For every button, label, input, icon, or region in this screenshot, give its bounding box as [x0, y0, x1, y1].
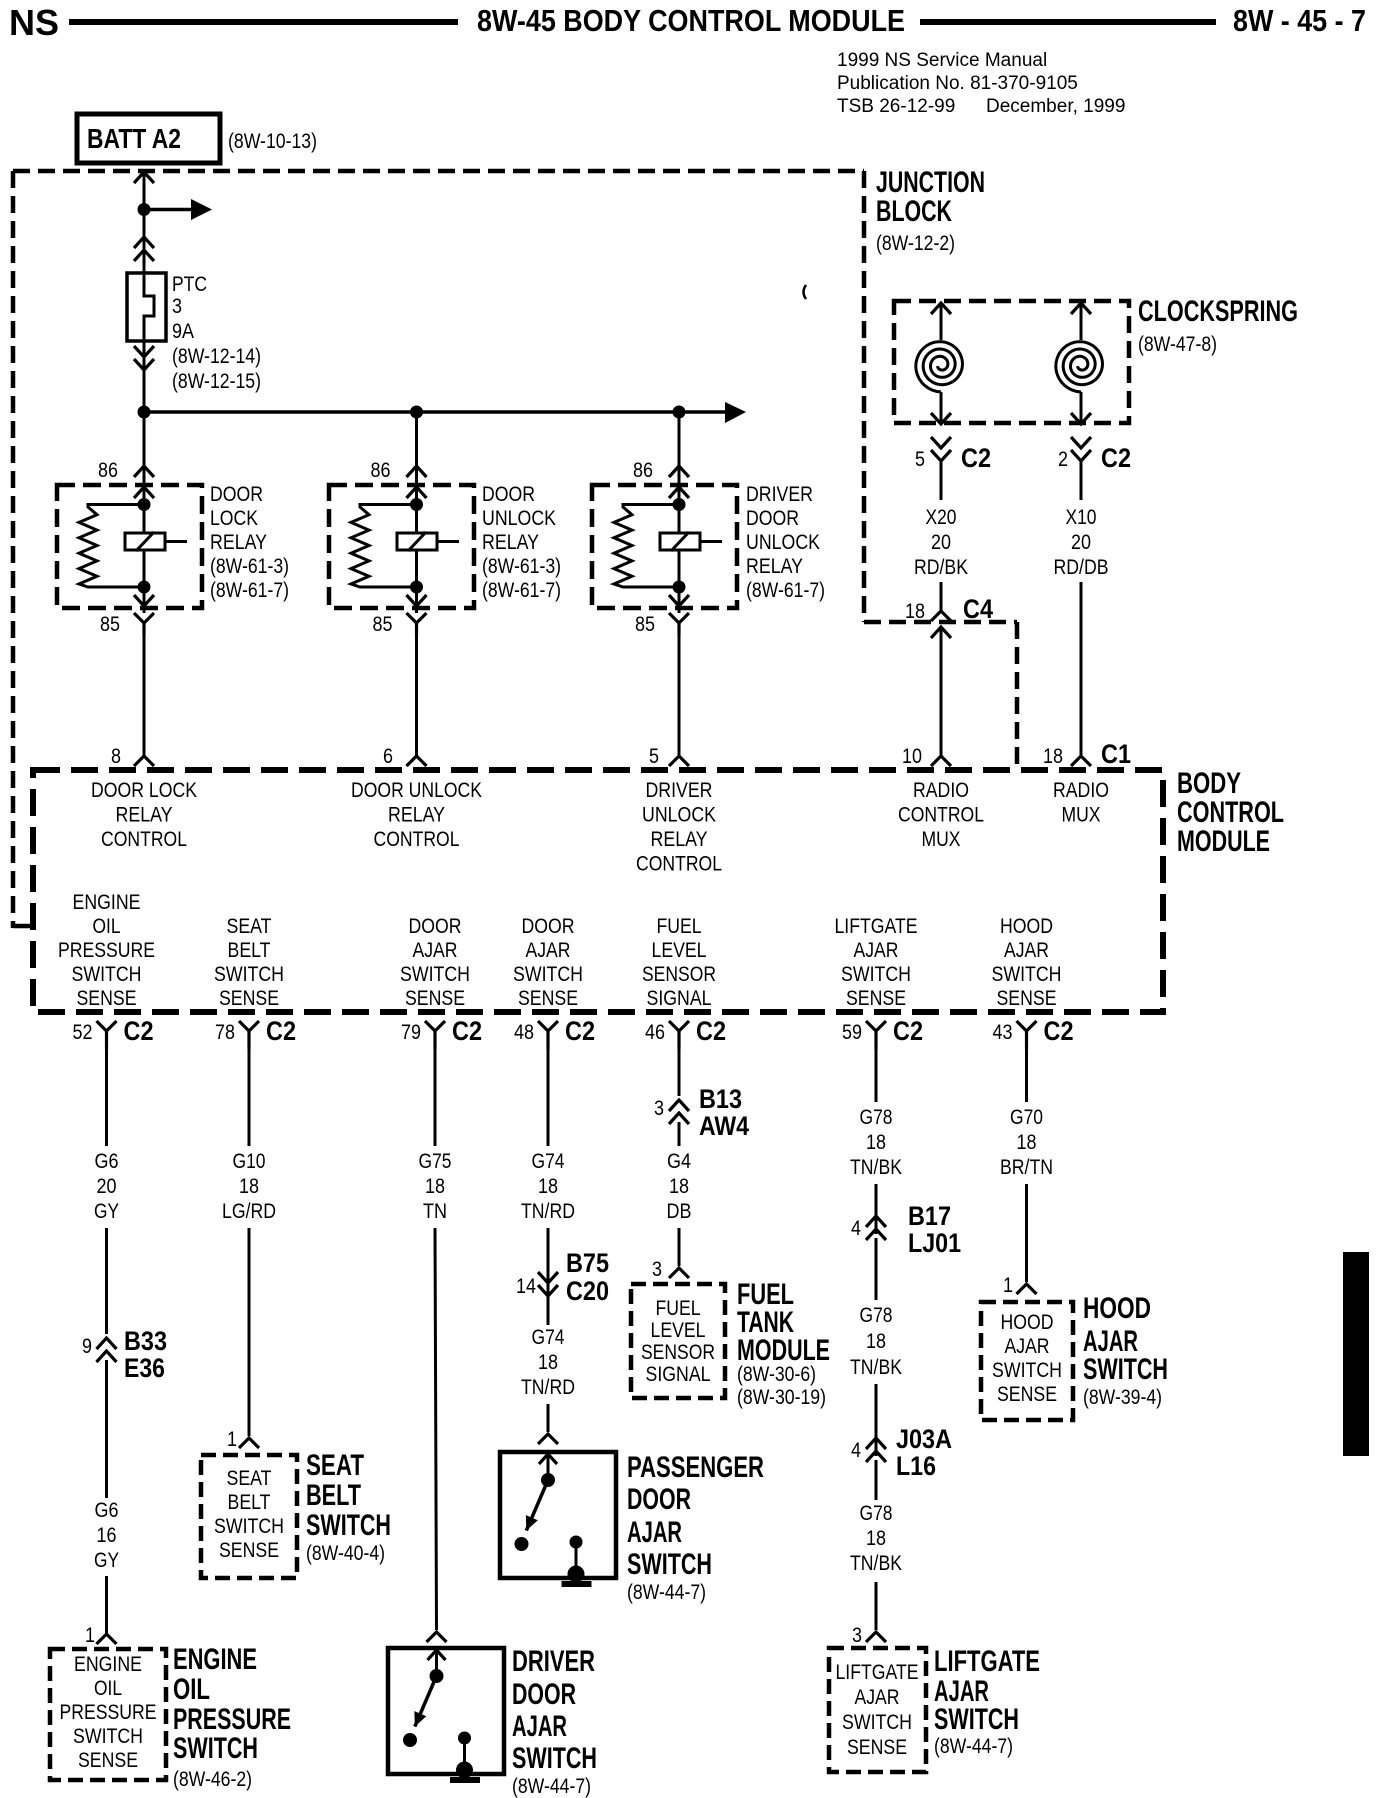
svg-text:1: 1 [85, 1624, 95, 1647]
svg-text:4: 4 [851, 1439, 861, 1462]
svg-text:SWITCH: SWITCH [306, 1509, 391, 1542]
svg-text:DRIVER: DRIVER [646, 779, 713, 802]
wire G6 lower segment [105, 1360, 108, 1498]
relay coil wire top [143, 505, 146, 534]
arrow out of relay box [134, 595, 154, 606]
arrow into BATT A2 [134, 172, 154, 183]
svg-text:10: 10 [902, 745, 922, 768]
svg-text:AJAR: AJAR [413, 939, 458, 962]
svg-text:X10: X10 [1066, 506, 1097, 529]
svg-text:AJAR: AJAR [627, 1516, 682, 1549]
node bus at door lock relay [138, 406, 151, 419]
connector double chevron above PTC [134, 237, 154, 261]
svg-text:(8W-61-3): (8W-61-3) [482, 555, 561, 578]
svg-text:LG/RD: LG/RD [222, 1200, 276, 1223]
svg-text:(8W-12-14): (8W-12-14) [172, 345, 261, 368]
svg-text:(8W-61-7): (8W-61-7) [210, 579, 289, 602]
driver door ajar switch fixed contact [456, 1732, 473, 1779]
svg-text:AJAR: AJAR [855, 1686, 900, 1709]
svg-text:G70: G70 [1010, 1106, 1043, 1129]
svg-text:(8W-30-19): (8W-30-19) [737, 1386, 826, 1409]
svg-text:8: 8 [111, 745, 121, 768]
svg-text:CONTROL: CONTROL [898, 804, 984, 827]
BCM pin 79 C2 fork [425, 1021, 445, 1049]
wire G74 middle segment [547, 1228, 550, 1296]
svg-text:SWITCH: SWITCH [842, 1711, 912, 1734]
svg-text:46: 46 [645, 1021, 665, 1044]
svg-text:BLOCK: BLOCK [876, 195, 952, 228]
svg-text:SENSE: SENSE [518, 987, 578, 1010]
node bus at driver door unlock relay [673, 406, 686, 419]
hood ajar switch box [981, 1302, 1073, 1420]
svg-text:DOOR: DOOR [482, 483, 535, 506]
svg-text:UNLOCK: UNLOCK [746, 531, 820, 554]
clockspring coil at x 1081 [1056, 303, 1103, 424]
BCM pin 6 fork [407, 756, 427, 766]
wire below C2 [940, 461, 943, 500]
wire relay 85 to BCM pin 6 [415, 635, 418, 755]
arrow out of relay box [669, 595, 689, 606]
svg-text:SWITCH: SWITCH [72, 963, 142, 986]
svg-text:B17: B17 [908, 1201, 951, 1231]
wire X10 to BCM pin 18 [1080, 582, 1083, 755]
svg-text:16: 16 [97, 1524, 117, 1547]
wire G75 lower segment [435, 1228, 437, 1630]
relay coil wire bottom [678, 550, 681, 613]
svg-text:HOOD: HOOD [1001, 1311, 1054, 1334]
svg-text:C2: C2 [266, 1016, 296, 1046]
passenger door ajar switch lever pivot [541, 1473, 555, 1487]
svg-text:20: 20 [931, 531, 951, 554]
svg-text:RELAY: RELAY [482, 531, 539, 554]
svg-text:3: 3 [172, 295, 182, 318]
svg-text:SWITCH: SWITCH [512, 1742, 597, 1775]
connector B75 C20 double chevron [538, 1272, 558, 1296]
arrow out of relay box [407, 595, 427, 606]
svg-text:78: 78 [215, 1021, 235, 1044]
header rule left [69, 19, 458, 25]
relay name label [210, 483, 289, 602]
svg-text:SEAT: SEAT [227, 915, 272, 938]
svg-text:SWITCH: SWITCH [513, 963, 583, 986]
svg-text:59: 59 [842, 1021, 862, 1044]
svg-text:SEAT: SEAT [306, 1449, 364, 1482]
svg-text:LEVEL: LEVEL [651, 1319, 706, 1342]
passenger door ajar switch fixed contact [568, 1536, 585, 1583]
BCM pin 46 C2 fork [669, 1021, 689, 1049]
svg-text:RD/DB: RD/DB [1054, 556, 1109, 579]
svg-text:C20: C20 [566, 1276, 609, 1306]
BCM pin 10 fork [931, 756, 951, 766]
svg-text:SENSE: SENSE [846, 987, 906, 1010]
svg-text:TN/RD: TN/RD [521, 1376, 575, 1399]
svg-text:G78: G78 [860, 1304, 893, 1327]
relay coil top node [138, 498, 151, 511]
svg-text:ENGINE: ENGINE [74, 1653, 142, 1676]
wire G4 below connector [678, 1122, 681, 1146]
wire G78 fifth segment [875, 1460, 878, 1500]
wire below C2 [1080, 461, 1083, 500]
svg-text:(8W-47-8): (8W-47-8) [1138, 333, 1217, 356]
svg-text:UNLOCK: UNLOCK [642, 804, 716, 827]
passenger door ajar switch fork [538, 1434, 558, 1444]
wire G10 upper segment [248, 1049, 251, 1146]
arrow above relay box [407, 466, 427, 477]
engine oil pressure switch name [173, 1643, 291, 1791]
wire G78 fourth segment [875, 1384, 878, 1456]
svg-text:LIFTGATE: LIFTGATE [835, 915, 918, 938]
svg-text:(8W-39-4): (8W-39-4) [1083, 1386, 1162, 1409]
clockspring label [1138, 295, 1298, 356]
liftgate ajar switch box [829, 1648, 926, 1772]
svg-text:AJAR: AJAR [854, 939, 899, 962]
passenger door ajar switch internal contact arrow [539, 1454, 557, 1480]
connector B17 LJ01 label [908, 1201, 961, 1258]
passenger door ajar switch name [627, 1451, 764, 1604]
svg-text:DOOR UNLOCK: DOOR UNLOCK [351, 779, 482, 802]
connector B33 E36 label [124, 1326, 167, 1383]
svg-text:18: 18 [538, 1175, 558, 1198]
fuel tank module pin 3 fork [669, 1268, 689, 1278]
svg-text:52: 52 [73, 1021, 93, 1044]
svg-text:L16: L16 [896, 1451, 936, 1481]
wire G74 to passenger door ajar switch [547, 1404, 550, 1432]
svg-text:PTC: PTC [172, 273, 207, 296]
wire to engine oil pressure switch [105, 1576, 108, 1633]
svg-text:B75: B75 [566, 1248, 609, 1278]
svg-text:C2: C2 [1101, 443, 1131, 473]
svg-text:(8W-61-3): (8W-61-3) [210, 555, 289, 578]
svg-text:(8W-30-6): (8W-30-6) [737, 1363, 816, 1386]
driver door ajar switch box [388, 1648, 504, 1774]
svg-text:C2: C2 [696, 1016, 726, 1046]
relay coil bottom node [410, 581, 423, 594]
arrow out of clockspring box [1071, 413, 1091, 424]
relay coil top node [673, 498, 686, 511]
svg-text:SWITCH: SWITCH [841, 963, 911, 986]
wire G78 second segment [875, 1184, 878, 1234]
svg-text:1: 1 [227, 1428, 237, 1451]
wire relay 85 to BCM pin 5 [678, 635, 681, 755]
svg-text:DOOR: DOOR [409, 915, 462, 938]
wire G4 upper segment [678, 1049, 681, 1096]
relay coil [397, 532, 459, 551]
wire G10 lower segment [248, 1228, 251, 1436]
relay coil wire bottom [415, 550, 418, 613]
battery feed box BATT A2 [77, 114, 220, 163]
svg-text:TN/BK: TN/BK [850, 1552, 902, 1575]
svg-text:3: 3 [654, 1097, 664, 1120]
svg-text:FUEL: FUEL [656, 1297, 701, 1320]
svg-text:(8W-44-7): (8W-44-7) [934, 1735, 1013, 1758]
junction block outline [13, 171, 1017, 928]
svg-text:C2: C2 [452, 1016, 482, 1046]
svg-text:HOOD: HOOD [1083, 1292, 1151, 1325]
svg-text:(8W-10-13): (8W-10-13) [228, 130, 317, 153]
svg-text:18: 18 [538, 1351, 558, 1374]
wire G78 third segment [875, 1238, 878, 1300]
svg-text:TN/BK: TN/BK [850, 1356, 902, 1379]
svg-text:SWITCH: SWITCH [173, 1732, 258, 1765]
wire PTC to bus [143, 341, 146, 412]
svg-text:5: 5 [915, 448, 925, 471]
driver door ajar switch lever [414, 1676, 436, 1727]
pin 85 terminal fork [407, 613, 427, 635]
svg-text:1: 1 [1003, 1274, 1013, 1297]
svg-text:SWITCH: SWITCH [1083, 1353, 1168, 1386]
svg-text:AJAR: AJAR [512, 1710, 567, 1743]
svg-text:J03A: J03A [896, 1424, 952, 1454]
svg-text:G78: G78 [860, 1502, 893, 1525]
svg-text:TN: TN [423, 1200, 447, 1223]
fuse PTC 3 9A [127, 273, 166, 341]
arrow into relay box [134, 487, 154, 498]
svg-text:(8W-61-7): (8W-61-7) [746, 579, 825, 602]
wire bus to DOOR relay pin 86 [143, 412, 146, 505]
fuse PTC labels [172, 273, 261, 393]
connector C4 fork [931, 611, 951, 621]
svg-text:GY: GY [94, 1549, 119, 1572]
fuel tank module box [631, 1284, 725, 1398]
wire G78 to liftgate ajar switch [875, 1582, 878, 1630]
svg-text:SIGNAL: SIGNAL [647, 987, 712, 1010]
svg-text:AW4: AW4 [699, 1111, 749, 1141]
hood ajar switch pin 1 fork [1017, 1284, 1037, 1294]
wire bus to DRIVER relay pin 86 [678, 412, 681, 505]
svg-text:4: 4 [851, 1217, 861, 1240]
BCM pin 48 C2 fork [538, 1021, 558, 1049]
pin 85 terminal fork [134, 613, 154, 635]
connector C2 double chevron pin 5 [931, 437, 951, 461]
svg-text:48: 48 [514, 1021, 534, 1044]
relay name label [482, 483, 561, 602]
wire X20 lower segment [940, 582, 943, 611]
svg-text:SENSE: SENSE [219, 987, 279, 1010]
arrow into relay box [669, 487, 689, 498]
svg-text:BR/TN: BR/TN [1000, 1156, 1053, 1179]
svg-text:(8W-44-7): (8W-44-7) [627, 1581, 706, 1604]
connector B17 LJ01 double chevron [866, 1216, 886, 1240]
wire G70 lower segment [1025, 1184, 1028, 1282]
arrow above relay box [669, 466, 689, 477]
relay coil [660, 532, 722, 551]
passenger door ajar switch lever [526, 1480, 548, 1531]
wire from BATT A2 [143, 174, 146, 273]
svg-text:79: 79 [401, 1021, 421, 1044]
svg-text:SEAT: SEAT [227, 1467, 272, 1490]
header rule right [920, 19, 1216, 25]
relay coil bottom node [138, 581, 151, 594]
svg-text:SENSE: SENSE [997, 1383, 1057, 1406]
wire G6 upper segment [105, 1049, 108, 1146]
svg-text:18: 18 [669, 1175, 689, 1198]
svg-text:DOOR: DOOR [210, 483, 263, 506]
svg-text:86: 86 [371, 459, 391, 482]
svg-text:C2: C2 [565, 1016, 595, 1046]
liftgate ajar switch name [934, 1645, 1040, 1758]
svg-text:SWITCH: SWITCH [992, 963, 1062, 986]
relay coil wire bottom [143, 550, 146, 613]
hood ajar switch name [1083, 1292, 1168, 1409]
svg-text:G74: G74 [532, 1150, 565, 1173]
seat belt switch name [306, 1449, 391, 1565]
svg-text:BELT: BELT [306, 1479, 361, 1512]
svg-text:1999 NS Service Manual: 1999 NS Service Manual [837, 50, 1047, 71]
svg-text:C4: C4 [963, 594, 993, 624]
svg-text:GY: GY [94, 1200, 119, 1223]
svg-text:C2: C2 [893, 1016, 923, 1046]
svg-text:SWITCH: SWITCH [992, 1359, 1062, 1382]
svg-text:SWITCH: SWITCH [627, 1548, 712, 1581]
page edge index tab [1343, 1252, 1369, 1456]
svg-text:UNLOCK: UNLOCK [482, 507, 556, 530]
svg-text:CONTROL: CONTROL [374, 828, 460, 851]
connector B13 AW4 label [699, 1084, 749, 1141]
driver door ajar switch name [512, 1645, 597, 1798]
svg-text:RADIO: RADIO [1053, 779, 1109, 802]
connector C4 mating arrow [931, 627, 951, 638]
svg-text:RELAY: RELAY [210, 531, 267, 554]
svg-text:G74: G74 [532, 1326, 565, 1349]
svg-text:(8W-46-2): (8W-46-2) [173, 1768, 252, 1791]
svg-text:CLOCKSPRING: CLOCKSPRING [1138, 295, 1298, 328]
svg-text:LJ01: LJ01 [908, 1228, 961, 1258]
svg-text:RELAY: RELAY [388, 804, 445, 827]
svg-text:3: 3 [852, 1624, 862, 1647]
relay coil bottom node [673, 581, 686, 594]
seat belt switch box [201, 1455, 297, 1578]
svg-text:(8W-12-2): (8W-12-2) [876, 232, 955, 255]
svg-text:18: 18 [866, 1527, 886, 1550]
svg-text:2: 2 [1058, 448, 1068, 471]
wire G78 upper segment [875, 1049, 878, 1102]
svg-text:PASSENGER: PASSENGER [627, 1451, 764, 1484]
svg-text:85: 85 [635, 613, 655, 636]
svg-text:BATT A2: BATT A2 [87, 123, 181, 154]
svg-text:MUX: MUX [1062, 804, 1101, 827]
svg-text:CONTROL: CONTROL [101, 828, 187, 851]
svg-text:RELAY: RELAY [651, 828, 708, 851]
svg-text:DOOR: DOOR [627, 1483, 691, 1516]
svg-text:RELAY: RELAY [116, 804, 173, 827]
wire branch arrow right [144, 199, 212, 220]
svg-text:December, 1999: December, 1999 [986, 96, 1125, 117]
relay name label [746, 483, 825, 602]
BCM pin 18 fork [1071, 756, 1091, 766]
relay coil [125, 532, 187, 551]
pin 85 terminal fork [669, 613, 689, 635]
node bus at door unlock relay [410, 406, 423, 419]
svg-text:FUEL: FUEL [657, 915, 702, 938]
clockspring coil at x 941 [916, 303, 963, 424]
svg-text:DOOR: DOOR [746, 507, 799, 530]
svg-text:PRESSURE: PRESSURE [58, 939, 155, 962]
body control module outline [33, 770, 1163, 1012]
svg-text:6: 6 [383, 745, 393, 768]
connector C2 double chevron pin 2 [1071, 437, 1091, 461]
svg-text:G6: G6 [95, 1499, 119, 1522]
driver door ajar switch lever end contact [403, 1733, 417, 1747]
svg-text:18: 18 [866, 1131, 886, 1154]
svg-text:18: 18 [425, 1175, 445, 1198]
svg-text:9A: 9A [172, 320, 194, 343]
svg-text:RELAY: RELAY [746, 555, 803, 578]
svg-text:SWITCH: SWITCH [214, 1515, 284, 1538]
svg-text:NS: NS [9, 2, 59, 43]
connector J03A L16 double chevron [866, 1438, 886, 1462]
svg-text:SENSE: SENSE [77, 987, 137, 1010]
svg-text:LIFTGATE: LIFTGATE [934, 1645, 1040, 1678]
wire G4 to fuel tank module [678, 1228, 681, 1266]
wire relay 85 to BCM pin 8 [143, 635, 146, 755]
svg-text:C2: C2 [1044, 1016, 1074, 1046]
relay suppression resistor [614, 505, 679, 588]
svg-text:85: 85 [100, 613, 120, 636]
driver door ajar switch fork [427, 1632, 447, 1642]
svg-text:RD/BK: RD/BK [914, 556, 968, 579]
svg-text:SENSE: SENSE [997, 987, 1057, 1010]
svg-text:G4: G4 [667, 1150, 691, 1173]
svg-text:85: 85 [373, 613, 393, 636]
svg-text:OIL: OIL [93, 915, 121, 938]
driver door ajar switch lever pivot [430, 1669, 444, 1683]
arrow out of clockspring box [931, 413, 951, 424]
svg-text:8W - 45 - 7: 8W - 45 - 7 [1233, 3, 1366, 38]
svg-text:G6: G6 [95, 1150, 119, 1173]
svg-text:ENGINE: ENGINE [173, 1643, 257, 1676]
passenger door ajar switch lever end contact [515, 1537, 529, 1551]
connector B33 E36 double chevron [97, 1338, 117, 1362]
svg-text:DOOR: DOOR [512, 1678, 576, 1711]
relay suppression resistor [79, 505, 144, 588]
svg-text:G78: G78 [860, 1106, 893, 1129]
svg-text:SWITCH: SWITCH [934, 1703, 1019, 1736]
engine oil pressure switch pin 1 fork [97, 1634, 117, 1644]
wire C4 to BCM pin 10 [940, 629, 943, 755]
svg-text:C1: C1 [1101, 739, 1131, 769]
svg-text:SWITCH: SWITCH [214, 963, 284, 986]
svg-text:(8W-61-7): (8W-61-7) [482, 579, 561, 602]
svg-text:AJAR: AJAR [1004, 939, 1049, 962]
driver door ajar switch internal contact arrow [428, 1650, 446, 1676]
svg-text:14: 14 [516, 1275, 536, 1298]
svg-text:C2: C2 [961, 443, 991, 473]
svg-text:18: 18 [905, 600, 925, 623]
svg-text:18: 18 [239, 1175, 259, 1198]
svg-text:3: 3 [652, 1258, 662, 1281]
svg-text:8W-45 BODY CONTROL MODULE: 8W-45 BODY CONTROL MODULE [477, 3, 905, 38]
wire G70 upper segment [1025, 1049, 1028, 1102]
svg-text:B33: B33 [124, 1326, 167, 1356]
svg-text:SENSE: SENSE [847, 1736, 907, 1759]
passenger door ajar switch ground bar [562, 1581, 592, 1587]
svg-text:CONTROL: CONTROL [636, 853, 722, 876]
svg-text:AJAR: AJAR [526, 939, 571, 962]
svg-text:LEVEL: LEVEL [652, 939, 707, 962]
svg-text:(8W-44-7): (8W-44-7) [512, 1775, 591, 1798]
seat belt switch pin 1 fork [239, 1438, 259, 1448]
relay coil top node [410, 498, 423, 511]
svg-text:G75: G75 [419, 1150, 452, 1173]
svg-text:RADIO: RADIO [913, 779, 969, 802]
BCM pin 78 C2 fork [239, 1021, 259, 1049]
relay box DRIVER DOOR UNLOCK RELAY (8W-61-7) [592, 485, 737, 608]
svg-text:18: 18 [1043, 745, 1063, 768]
passenger door ajar switch box [500, 1452, 616, 1578]
wire bus to DOOR relay pin 86 [415, 412, 418, 505]
svg-text:PRESSURE: PRESSURE [60, 1701, 157, 1724]
svg-text:LOCK: LOCK [210, 507, 258, 530]
